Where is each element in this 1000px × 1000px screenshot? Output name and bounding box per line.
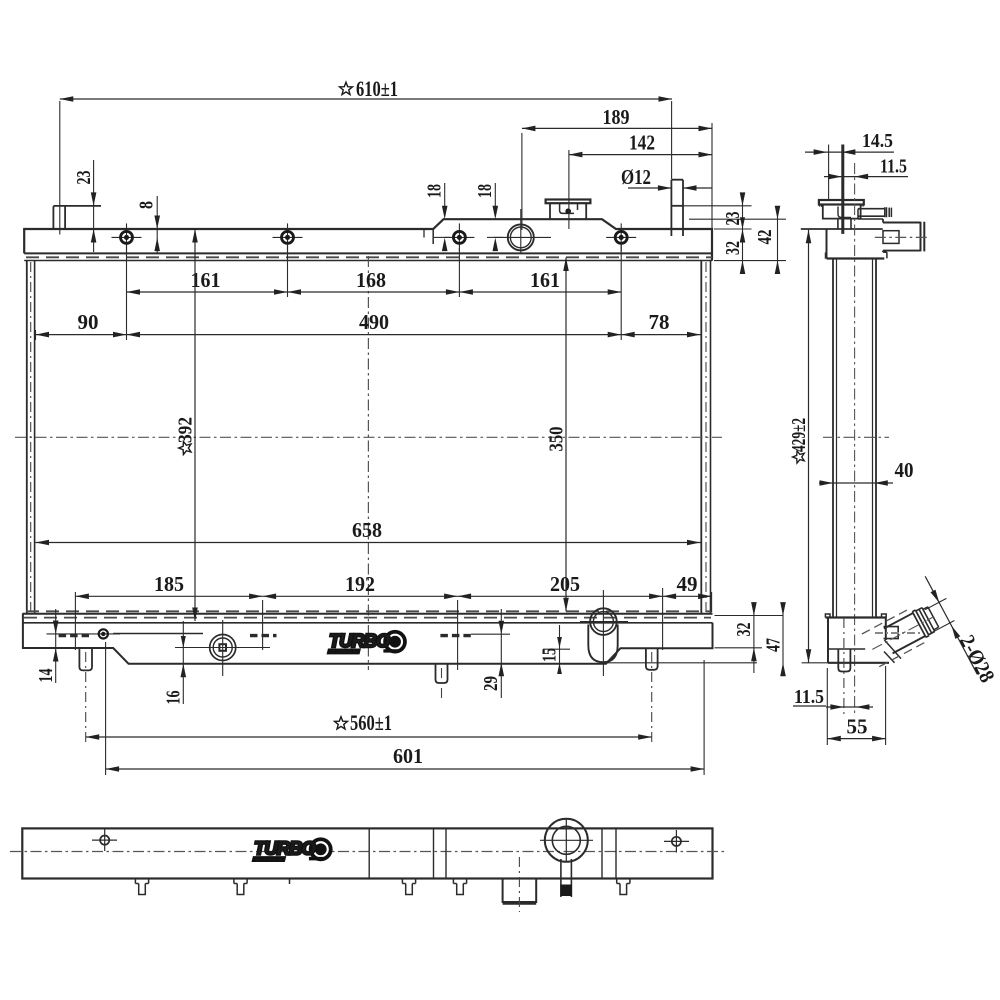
dim 2-D28 <box>925 598 946 609</box>
dim 55 side bottom <box>827 738 885 740</box>
svg-text:429±2: 429±2 <box>788 418 810 452</box>
core bottom tube row (dashed) <box>26 610 712 612</box>
bottom view pin 4 <box>453 879 466 895</box>
dim 560+-1 <box>86 736 652 738</box>
svg-text:23: 23 <box>74 170 95 184</box>
svg-text:168: 168 <box>356 268 386 292</box>
outlet port circle bottom <box>580 621 628 623</box>
TURBO logo bottom view <box>251 837 332 863</box>
side tank body <box>801 228 883 230</box>
left box shelf line <box>113 633 203 635</box>
svg-text:2-Ø28: 2-Ø28 <box>955 631 1000 687</box>
core top tube row (dashed) <box>26 256 712 258</box>
dim 11.5 side top <box>824 176 908 178</box>
svg-text:32: 32 <box>723 241 744 255</box>
svg-text:192: 192 <box>345 572 375 596</box>
bracket pin centerline (610 extension) <box>59 101 61 235</box>
svg-text:42: 42 <box>755 230 776 245</box>
svg-text:TURBO: TURBO <box>254 838 316 859</box>
svg-text:18: 18 <box>425 184 446 198</box>
bottom pin side view <box>838 649 850 672</box>
svg-text:90: 90 <box>78 310 99 334</box>
outlet port tube (U shape) <box>588 625 617 663</box>
dim 32 bottom right <box>753 605 755 673</box>
dim 601 <box>106 768 705 770</box>
FRONT VIEW - top tank outline <box>24 219 712 261</box>
right side extension lines top <box>683 205 752 207</box>
svg-text:658: 658 <box>352 518 382 542</box>
bottom view pin 2 <box>234 879 247 895</box>
svg-text:490: 490 <box>359 310 389 334</box>
dim 23 right <box>742 193 744 273</box>
mount hole right <box>664 840 689 842</box>
filler port circle <box>494 236 551 238</box>
bottom view pin 1 <box>135 879 148 895</box>
dim 18 second (raised top to port center) <box>494 183 496 214</box>
dim 42 right <box>777 212 779 268</box>
mount pin bottom left <box>79 648 92 670</box>
mount hole left <box>92 839 117 841</box>
svg-text:32: 32 <box>734 623 755 637</box>
dim 658 core width <box>36 542 701 544</box>
bar seam lines <box>368 828 370 878</box>
slot hole row mid <box>250 634 277 637</box>
dim 40 core thickness <box>819 482 893 484</box>
vertical centerline <box>367 256 369 670</box>
svg-text:55: 55 <box>847 715 868 739</box>
svg-text:29: 29 <box>481 676 502 691</box>
mount pin bottom mid <box>436 664 448 683</box>
overflow nipple <box>858 208 885 210</box>
svg-text:610±1: 610±1 <box>356 76 398 101</box>
drain plug <box>175 647 270 649</box>
dim 47 bottom right <box>782 608 784 676</box>
svg-text:47: 47 <box>764 638 785 652</box>
dim 16 <box>182 621 184 704</box>
dim 8 (screw offset) <box>156 196 158 254</box>
left box screw <box>47 633 121 635</box>
dim 610+-1 overall width <box>60 98 672 100</box>
svg-text:8: 8 <box>137 201 158 209</box>
tank bottom lips <box>826 252 887 259</box>
slot hole row left <box>59 634 89 637</box>
side bottom tank block <box>825 616 886 618</box>
cap body <box>823 205 861 219</box>
core column side view <box>832 259 834 617</box>
mount pin bottom right <box>646 648 658 670</box>
dim 350 <box>565 258 567 612</box>
svg-text:392: 392 <box>175 417 197 443</box>
dim row 161/168/161 <box>127 291 622 293</box>
dim 32 right <box>740 217 745 229</box>
top-left mounting bracket <box>53 206 101 229</box>
radiator cap on raised section <box>546 200 591 204</box>
overflow tube below bar <box>560 859 562 897</box>
dim 392 core height <box>194 229 196 621</box>
dim 11.5 side bottom <box>793 705 826 707</box>
dim 14 left bottom <box>55 609 57 683</box>
dim 142 <box>569 154 712 156</box>
svg-text:11.5: 11.5 <box>794 686 824 708</box>
dim row 90/490/78 <box>36 334 127 336</box>
dim 23 left (bracket height) <box>93 160 95 252</box>
upper hose port <box>883 222 921 224</box>
svg-text:15: 15 <box>540 648 561 662</box>
top tank bottom strip <box>24 252 712 254</box>
mounting screw at (126.5,237.4) <box>112 236 142 238</box>
dim 18 first (raised top to screw) <box>444 183 446 214</box>
core left side plate <box>26 261 28 614</box>
dim 29 <box>500 609 502 698</box>
svg-text:40: 40 <box>895 458 914 482</box>
BOTTOM VIEW - tank bar <box>22 828 712 878</box>
svg-text:142: 142 <box>629 131 655 155</box>
svg-text:18: 18 <box>475 184 496 198</box>
svg-text:185: 185 <box>154 572 184 596</box>
bar centerline <box>10 851 725 853</box>
cap neck circles <box>540 839 593 841</box>
svg-text:189: 189 <box>603 105 630 129</box>
svg-text:WORKS: WORKS <box>254 857 283 863</box>
cap neck <box>837 219 839 229</box>
pin rod (thick line) <box>841 145 844 234</box>
svg-text:560±1: 560±1 <box>350 710 392 735</box>
inlet spout below bar <box>503 879 537 903</box>
mounting screw at (287.5,237.4) <box>273 236 303 238</box>
svg-text:WORKS: WORKS <box>329 650 358 656</box>
svg-text:16: 16 <box>164 690 185 704</box>
mounting screw at (459.4,237.4) <box>444 236 474 238</box>
small tick <box>289 879 291 885</box>
svg-text:49: 49 <box>677 572 698 596</box>
bottom tank outline <box>23 614 713 664</box>
svg-text:205: 205 <box>550 572 580 596</box>
right side extension lines bottom <box>715 615 784 617</box>
svg-text:TURBO: TURBO <box>329 630 391 651</box>
TURBO logo on bottom tank <box>327 630 407 656</box>
dim D12 pin <box>628 187 671 189</box>
core right side plate <box>700 261 702 614</box>
dim row 185/192/205/49 <box>75 595 262 597</box>
block corner cut diagonals <box>884 640 901 659</box>
horizontal centerline <box>15 436 722 438</box>
svg-text:78: 78 <box>649 310 670 334</box>
dim 189 <box>522 127 712 129</box>
svg-text:Ø12: Ø12 <box>621 165 651 189</box>
dim 15 <box>559 625 561 672</box>
svg-text:14.5: 14.5 <box>862 130 893 152</box>
slot hole row right <box>440 634 470 637</box>
bottom outlet bore <box>884 627 899 639</box>
svg-text:350: 350 <box>546 427 568 452</box>
angled outlet port 2-D28 <box>862 600 943 666</box>
svg-text:601: 601 <box>393 744 423 768</box>
bottom tank top strip <box>22 613 712 615</box>
dim 14.5 side top <box>805 151 894 153</box>
ext line 14.5 left <box>828 145 830 201</box>
svg-text:11.5: 11.5 <box>880 156 907 178</box>
svg-text:14: 14 <box>36 668 57 682</box>
bottom view pin 3 <box>402 879 415 895</box>
SIDE VIEW - cap plate <box>819 200 864 205</box>
bottom view pin 5 <box>617 879 630 895</box>
svg-text:161: 161 <box>530 268 560 292</box>
mount pin D12 top right <box>671 180 683 236</box>
mounting screw at (621.2,237.4) <box>606 236 636 238</box>
dim 429+-2 overall height <box>808 230 810 663</box>
raised section left step <box>432 229 434 244</box>
